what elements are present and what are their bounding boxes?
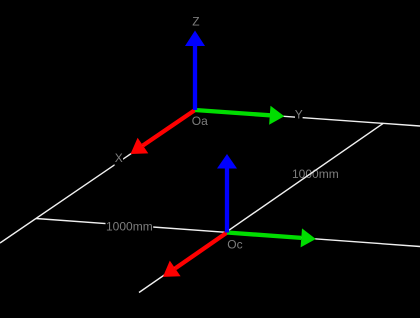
label X axis of Oa (black box occludes plane edge) [115,151,124,165]
axis X (red) of frame Oc [163,233,227,277]
svg-text:Z: Z [192,14,199,28]
wire: plane edge through Oc along Y direction [36,219,420,247]
axis Y (green) of frame Oc [227,228,316,247]
svg-text:1000mm: 1000mm [106,219,153,233]
label Y axis of Oa (black box occludes plane edge) [295,107,303,121]
wire: plane edge through Oc along X direction (drawn over right 1000mm label) [139,124,383,293]
svg-text:X: X [115,151,123,165]
axis Y (green) of frame Oa [195,106,284,125]
axis Z (blue) of frame Oc [217,154,237,233]
wire: plane edge from Oa along +Y extended to right border [195,110,420,126]
svg-text:Oc: Oc [227,237,242,251]
axis X (red) of frame Oa [131,110,196,154]
svg-text:Oa: Oa [192,114,208,128]
label 1000mm right edge (drawn before its crossing line) [292,167,340,181]
axis Z (blue) of frame Oa [185,31,205,111]
svg-text:1000mm: 1000mm [292,167,339,181]
wire: plane edge from Oa along +X extended to left border [0,110,195,243]
label 1000mm bottom edge (black box occludes plane edge) [106,219,154,233]
svg-text:Y: Y [295,107,303,121]
